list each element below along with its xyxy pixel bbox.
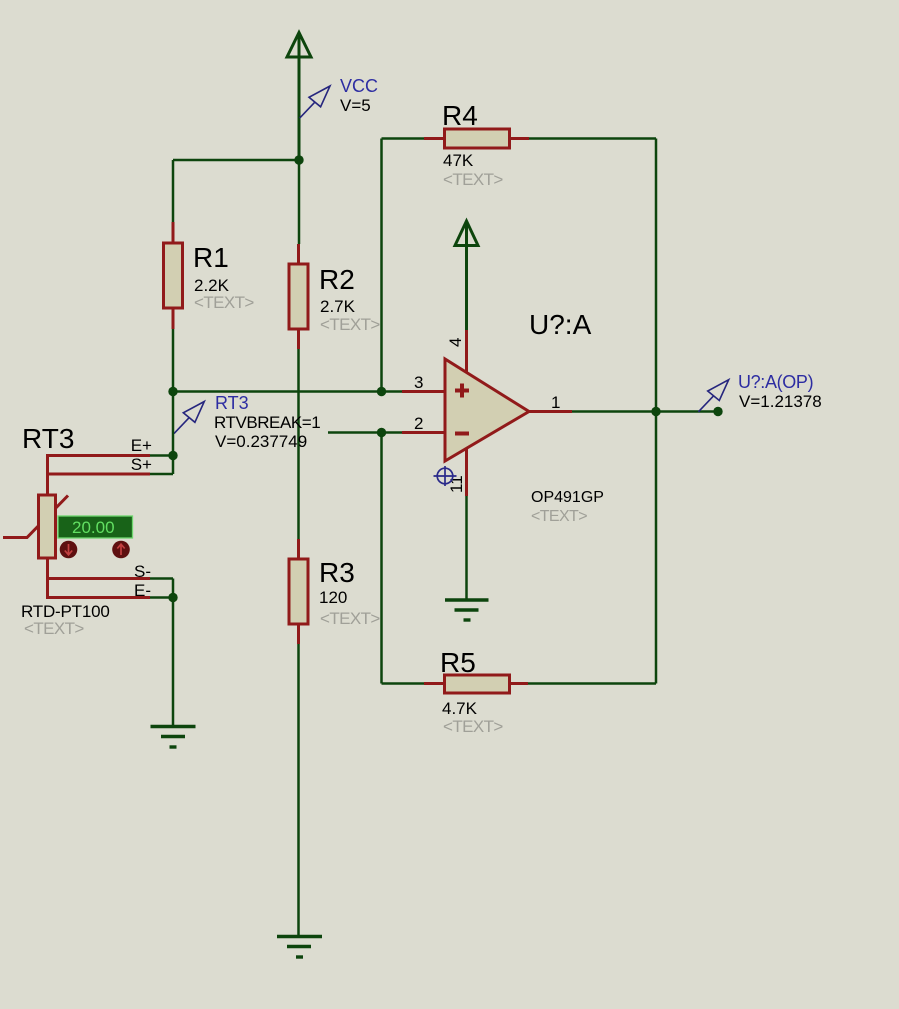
svg-text:2.7K: 2.7K: [320, 297, 356, 316]
svg-text:4: 4: [446, 338, 465, 347]
svg-text:V=1.21378: V=1.21378: [739, 392, 822, 411]
resistor R3: [289, 539, 308, 644]
power symbol op-amp supply: [455, 221, 478, 330]
pin E-: [48, 558, 151, 598]
svg-text:E+: E+: [131, 436, 152, 455]
wire E+: [150, 454, 173, 457]
op-amp U?:A triangle: [445, 359, 529, 461]
wire R4 to right rail: [529, 137, 656, 140]
svg-text:R3: R3: [319, 557, 355, 588]
svg-text:R1: R1: [193, 242, 229, 273]
svg-text:<TEXT>: <TEXT>: [320, 609, 380, 628]
wire S- to left ground: [172, 579, 175, 727]
svg-text:120: 120: [319, 588, 347, 607]
junction at pin 2: [377, 428, 386, 437]
button decrease: [60, 541, 78, 559]
junction at E-: [168, 593, 177, 602]
non-inverting plus mark: [455, 384, 469, 398]
button increase: [112, 541, 130, 559]
svg-text:R5: R5: [440, 647, 476, 678]
svg-text:47K: 47K: [443, 151, 474, 170]
svg-text:<TEXT>: <TEXT>: [24, 619, 84, 638]
op-amp U?:A pin 4: [465, 330, 468, 372]
svg-text:4.7K: 4.7K: [442, 699, 478, 718]
wire left rail to R5: [382, 682, 445, 685]
svg-text:<TEXT>: <TEXT>: [320, 315, 380, 334]
terminal arrow U?:A(OP): [698, 380, 728, 412]
thermistor strike line: [3, 496, 68, 538]
svg-text:<TEXT>: <TEXT>: [443, 717, 503, 736]
wire right feedback rail: [655, 139, 658, 684]
svg-text:OP491GP: OP491GP: [531, 489, 604, 506]
svg-text:3: 3: [414, 373, 423, 392]
ground left: [151, 727, 196, 748]
inverting minus mark: [455, 432, 469, 436]
terminal arrow VCC: [300, 86, 330, 118]
wire S+: [150, 473, 173, 476]
ground op-amp: [445, 600, 489, 620]
resistor R5: [424, 675, 528, 693]
wire R3 to bottom ground: [297, 644, 300, 936]
wire R2 to R3: [297, 349, 300, 539]
svg-text:11: 11: [447, 475, 466, 493]
pin 2 stub: [402, 431, 445, 434]
wire down to R1: [172, 160, 175, 222]
svg-text:RT3: RT3: [215, 393, 249, 413]
resistor R2: [289, 244, 308, 349]
junction at output: [651, 407, 660, 416]
wire S-: [150, 577, 173, 580]
ground bottom: [277, 937, 322, 958]
junction at E+: [168, 451, 177, 460]
svg-text:U?:A: U?:A: [529, 309, 592, 340]
svg-text:V=0.237749: V=0.237749: [215, 432, 307, 451]
junction at pin 3: [377, 387, 386, 396]
svg-text:20.00: 20.00: [72, 518, 115, 537]
pin 11: [465, 448, 468, 496]
wire E-: [150, 596, 173, 599]
svg-text:V=5: V=5: [340, 96, 371, 115]
RT3 temperature display 20.00: [58, 516, 133, 538]
wire R5 to right rail: [528, 682, 656, 685]
pin 1 stub: [529, 410, 572, 413]
origin marker: [434, 466, 457, 486]
junction at VCC node: [294, 155, 303, 164]
svg-text:E-: E-: [134, 581, 151, 600]
pin 3 stub: [402, 390, 445, 393]
svg-text:S+: S+: [131, 455, 152, 474]
svg-text:U?:A(OP): U?:A(OP): [738, 372, 813, 392]
resistor R4: [424, 129, 529, 148]
wire left rail to R4: [382, 137, 444, 140]
terminal arrow RT3: [174, 402, 204, 434]
wire stub left of pin 2: [328, 431, 403, 434]
svg-text:<TEXT>: <TEXT>: [443, 170, 503, 189]
svg-text:<TEXT>: <TEXT>: [531, 508, 587, 525]
svg-text:RT3: RT3: [22, 423, 74, 454]
junction node A: [168, 387, 177, 396]
wire output to junction: [572, 410, 656, 413]
pin S+: [48, 473, 151, 476]
svg-text:RTVBREAK=1: RTVBREAK=1: [214, 413, 320, 432]
svg-text:R4: R4: [442, 100, 478, 131]
RT3 body: [39, 495, 56, 558]
svg-text:R2: R2: [319, 264, 355, 295]
svg-text:<TEXT>: <TEXT>: [194, 293, 254, 312]
wire node A down to S+: [172, 392, 175, 475]
power symbol VCC: [287, 33, 311, 161]
wire left rail lower: [380, 433, 383, 684]
svg-text:1: 1: [551, 393, 560, 412]
resistor R1: [164, 222, 183, 329]
svg-text:2: 2: [414, 414, 423, 433]
wire pin 11 to ground: [465, 496, 468, 599]
RTD sensor RT3 pin E+: [48, 456, 151, 496]
pin S-: [48, 577, 151, 580]
wire junction to terminal: [656, 410, 718, 413]
wire R1 bottom to node: [172, 329, 175, 392]
wire VCC junction to R1 column: [173, 159, 299, 162]
wire input node row: [173, 390, 403, 393]
wire left feedback rail: [380, 139, 383, 392]
svg-text:VCC: VCC: [340, 76, 378, 96]
wire VCC junction down to R2: [298, 160, 301, 244]
terminal dot: [713, 407, 722, 416]
svg-text:S-: S-: [134, 562, 151, 581]
